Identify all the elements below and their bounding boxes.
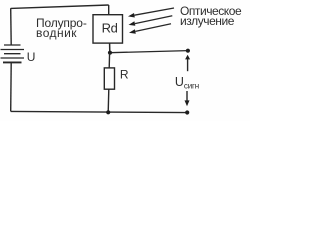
wire bottom horizontal xyxy=(11,111,188,112)
wire battery top vertical xyxy=(10,8,13,45)
svg-text:R: R xyxy=(120,68,129,82)
label Оптическое излучение (optical radiation) xyxy=(180,6,241,26)
wire Rd bottom vertical xyxy=(109,43,111,53)
wire resistor bottom vertical xyxy=(107,89,110,112)
optical radiation arrow 1 xyxy=(134,8,174,15)
node junction below Rd xyxy=(108,51,112,55)
resistor R box xyxy=(104,68,114,89)
label Полупроводник (semiconductor) xyxy=(36,18,87,38)
svg-text:Uсигн: Uсигн xyxy=(175,75,199,90)
battery B1 plate 4 (long) xyxy=(1,57,25,59)
photoresistor Rd box xyxy=(93,15,123,43)
wire Rd top vertical xyxy=(108,5,110,15)
battery B1 plate 3 (short) xyxy=(4,53,21,55)
wire battery bottom vertical xyxy=(10,62,13,111)
battery B1 plate 1 (short) xyxy=(4,44,21,46)
node output bottom xyxy=(185,110,189,114)
optical radiation arrow 2 xyxy=(135,16,172,24)
svg-text:Rd: Rd xyxy=(102,20,118,35)
wire junction to resistor top xyxy=(108,53,110,68)
arrow output up xyxy=(187,59,189,72)
node junction resistor to bottom wire xyxy=(106,110,110,114)
wire mid horizontal to output xyxy=(110,51,188,53)
battery B1 plate 2 (long) xyxy=(1,49,25,51)
svg-text:U: U xyxy=(27,50,36,64)
optical radiation arrow 3 xyxy=(135,24,171,32)
battery B1 plate 5 (short thick) xyxy=(3,61,22,63)
wire top horizontal from battery to Rd xyxy=(11,5,109,8)
arrow output down xyxy=(186,91,188,101)
node output top xyxy=(186,49,190,53)
